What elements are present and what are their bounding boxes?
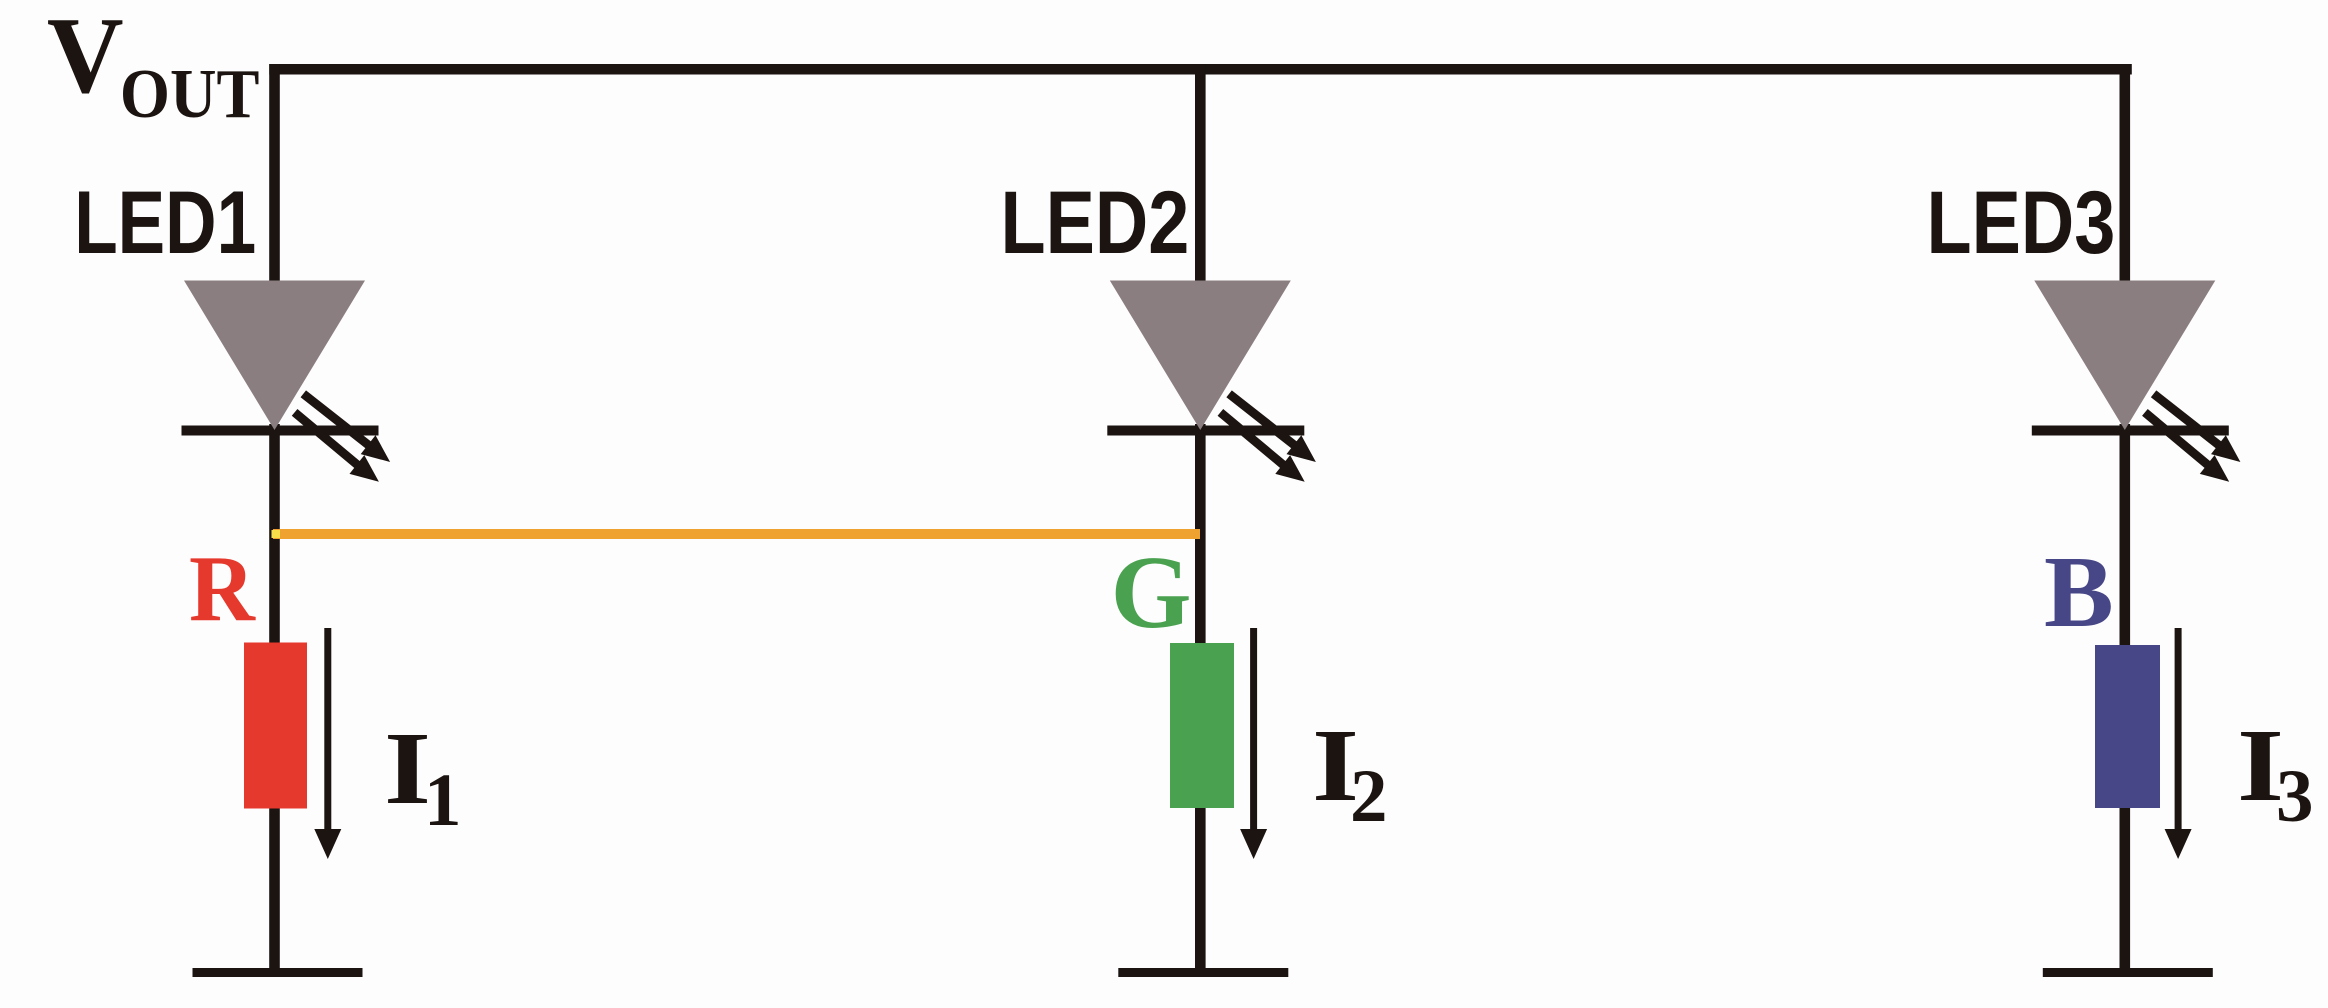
svg-text:LED3: LED3 (1927, 174, 2116, 273)
svg-text:R: R (189, 537, 256, 642)
svg-text:3: 3 (2276, 755, 2314, 838)
svg-text:V: V (47, 0, 124, 116)
svg-text:LED1: LED1 (74, 173, 256, 272)
svg-text:1: 1 (424, 759, 462, 842)
svg-text:B: B (2044, 536, 2114, 648)
svg-text:2: 2 (1350, 755, 1388, 838)
svg-text:G: G (1111, 535, 1192, 650)
svg-text:OUT: OUT (120, 55, 260, 133)
svg-text:LED2: LED2 (1001, 174, 1190, 273)
